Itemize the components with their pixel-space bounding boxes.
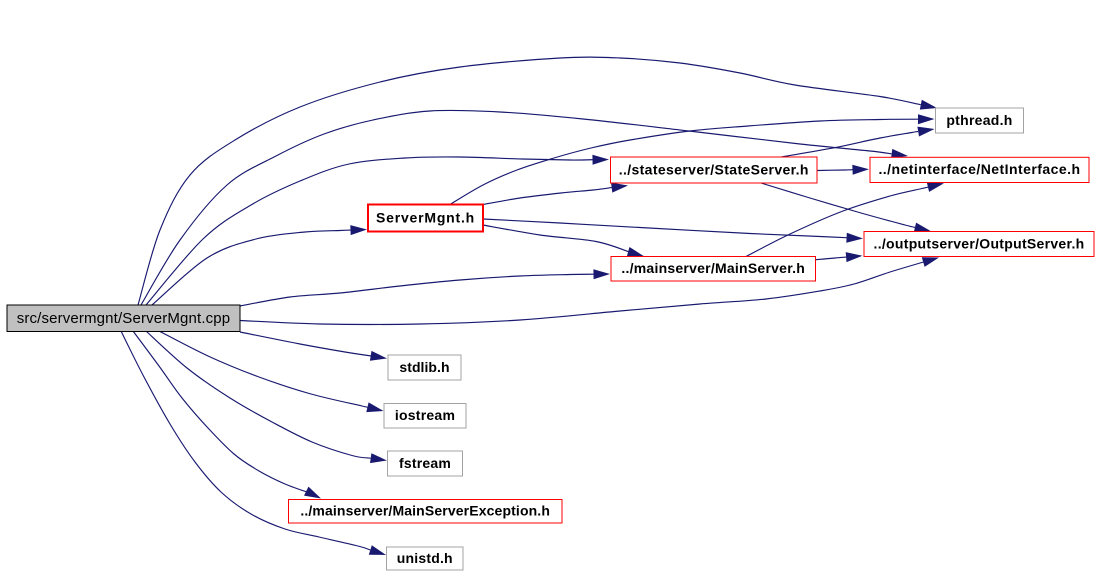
node ../mainserver/MainServerException.h <box>289 500 563 524</box>
svg-text:unistd.h: unistd.h <box>397 550 453 566</box>
node ../mainserver/MainServer.h <box>611 257 816 282</box>
edge ServerMgnt.h -> StateServer.h <box>483 183 628 205</box>
edge ServerMgnt.cpp -> fstream <box>146 331 387 463</box>
svg-text:../mainserver/MainServer.h: ../mainserver/MainServer.h <box>621 260 805 276</box>
edge MainServer.h -> OutputServer.h <box>816 252 863 262</box>
svg-text:../mainserver/MainServerExcept: ../mainserver/MainServerException.h <box>300 503 550 519</box>
svg-text:../outputserver/OutputServer.h: ../outputserver/OutputServer.h <box>874 235 1085 251</box>
node ServerMgnt.h <box>368 205 483 232</box>
svg-text:iostream: iostream <box>395 407 455 423</box>
svg-text:pthread.h: pthread.h <box>946 112 1012 128</box>
node ../outputserver/OutputServer.h <box>864 232 1094 257</box>
svg-text:../stateserver/StateServer.h: ../stateserver/StateServer.h <box>619 161 809 177</box>
edge ServerMgnt.h -> MainServer.h <box>483 225 644 257</box>
node fstream <box>388 451 463 476</box>
edge StateServer.h -> NetInterface.h <box>818 165 870 175</box>
edge ServerMgnt.cpp -> ServerMgnt.h <box>152 225 367 305</box>
edge ServerMgnt.cpp -> OutputServer.h <box>240 257 939 324</box>
edge StateServer.h -> pthread.h <box>781 127 935 157</box>
node unistd.h <box>387 547 464 570</box>
node iostream <box>384 404 466 429</box>
edge ServerMgnt.cpp -> NetInterface.h <box>141 110 908 305</box>
svg-text:src/servermgnt/ServerMgnt.cpp: src/servermgnt/ServerMgnt.cpp <box>17 310 231 327</box>
node ../stateserver/StateServer.h <box>611 157 818 183</box>
edge ServerMgnt.h -> pthread.h <box>450 114 935 204</box>
edge ServerMgnt.cpp -> iostream <box>159 331 384 412</box>
svg-text:../netinterface/NetInterface.h: ../netinterface/NetInterface.h <box>878 161 1080 177</box>
node stdlib.h <box>388 355 461 380</box>
edge ServerMgnt.cpp -> stdlib.h <box>240 332 387 361</box>
svg-text:fstream: fstream <box>399 455 451 471</box>
edge MainServer.h -> NetInterface.h <box>746 182 944 256</box>
edge ServerMgnt.cpp -> MainServer.h <box>240 269 610 306</box>
edge ServerMgnt.h -> OutputServer.h <box>483 219 863 243</box>
node pthread.h <box>936 108 1024 133</box>
node ../netinterface/NetInterface.h <box>870 157 1089 182</box>
edge ServerMgnt.cpp -> pthread.h <box>138 57 937 305</box>
edge ServerMgnt.cpp -> StateServer.h <box>146 155 609 305</box>
node src/servermgnt/ServerMgnt.cpp <box>7 305 240 332</box>
svg-text:stdlib.h: stdlib.h <box>399 359 449 375</box>
edge ServerMgnt.cpp -> MainServerException.h <box>133 331 321 499</box>
edge ServerMgnt.cpp -> unistd.h <box>121 331 386 555</box>
svg-text:ServerMgnt.h: ServerMgnt.h <box>376 209 475 225</box>
edge StateServer.h -> OutputServer.h <box>761 183 931 232</box>
